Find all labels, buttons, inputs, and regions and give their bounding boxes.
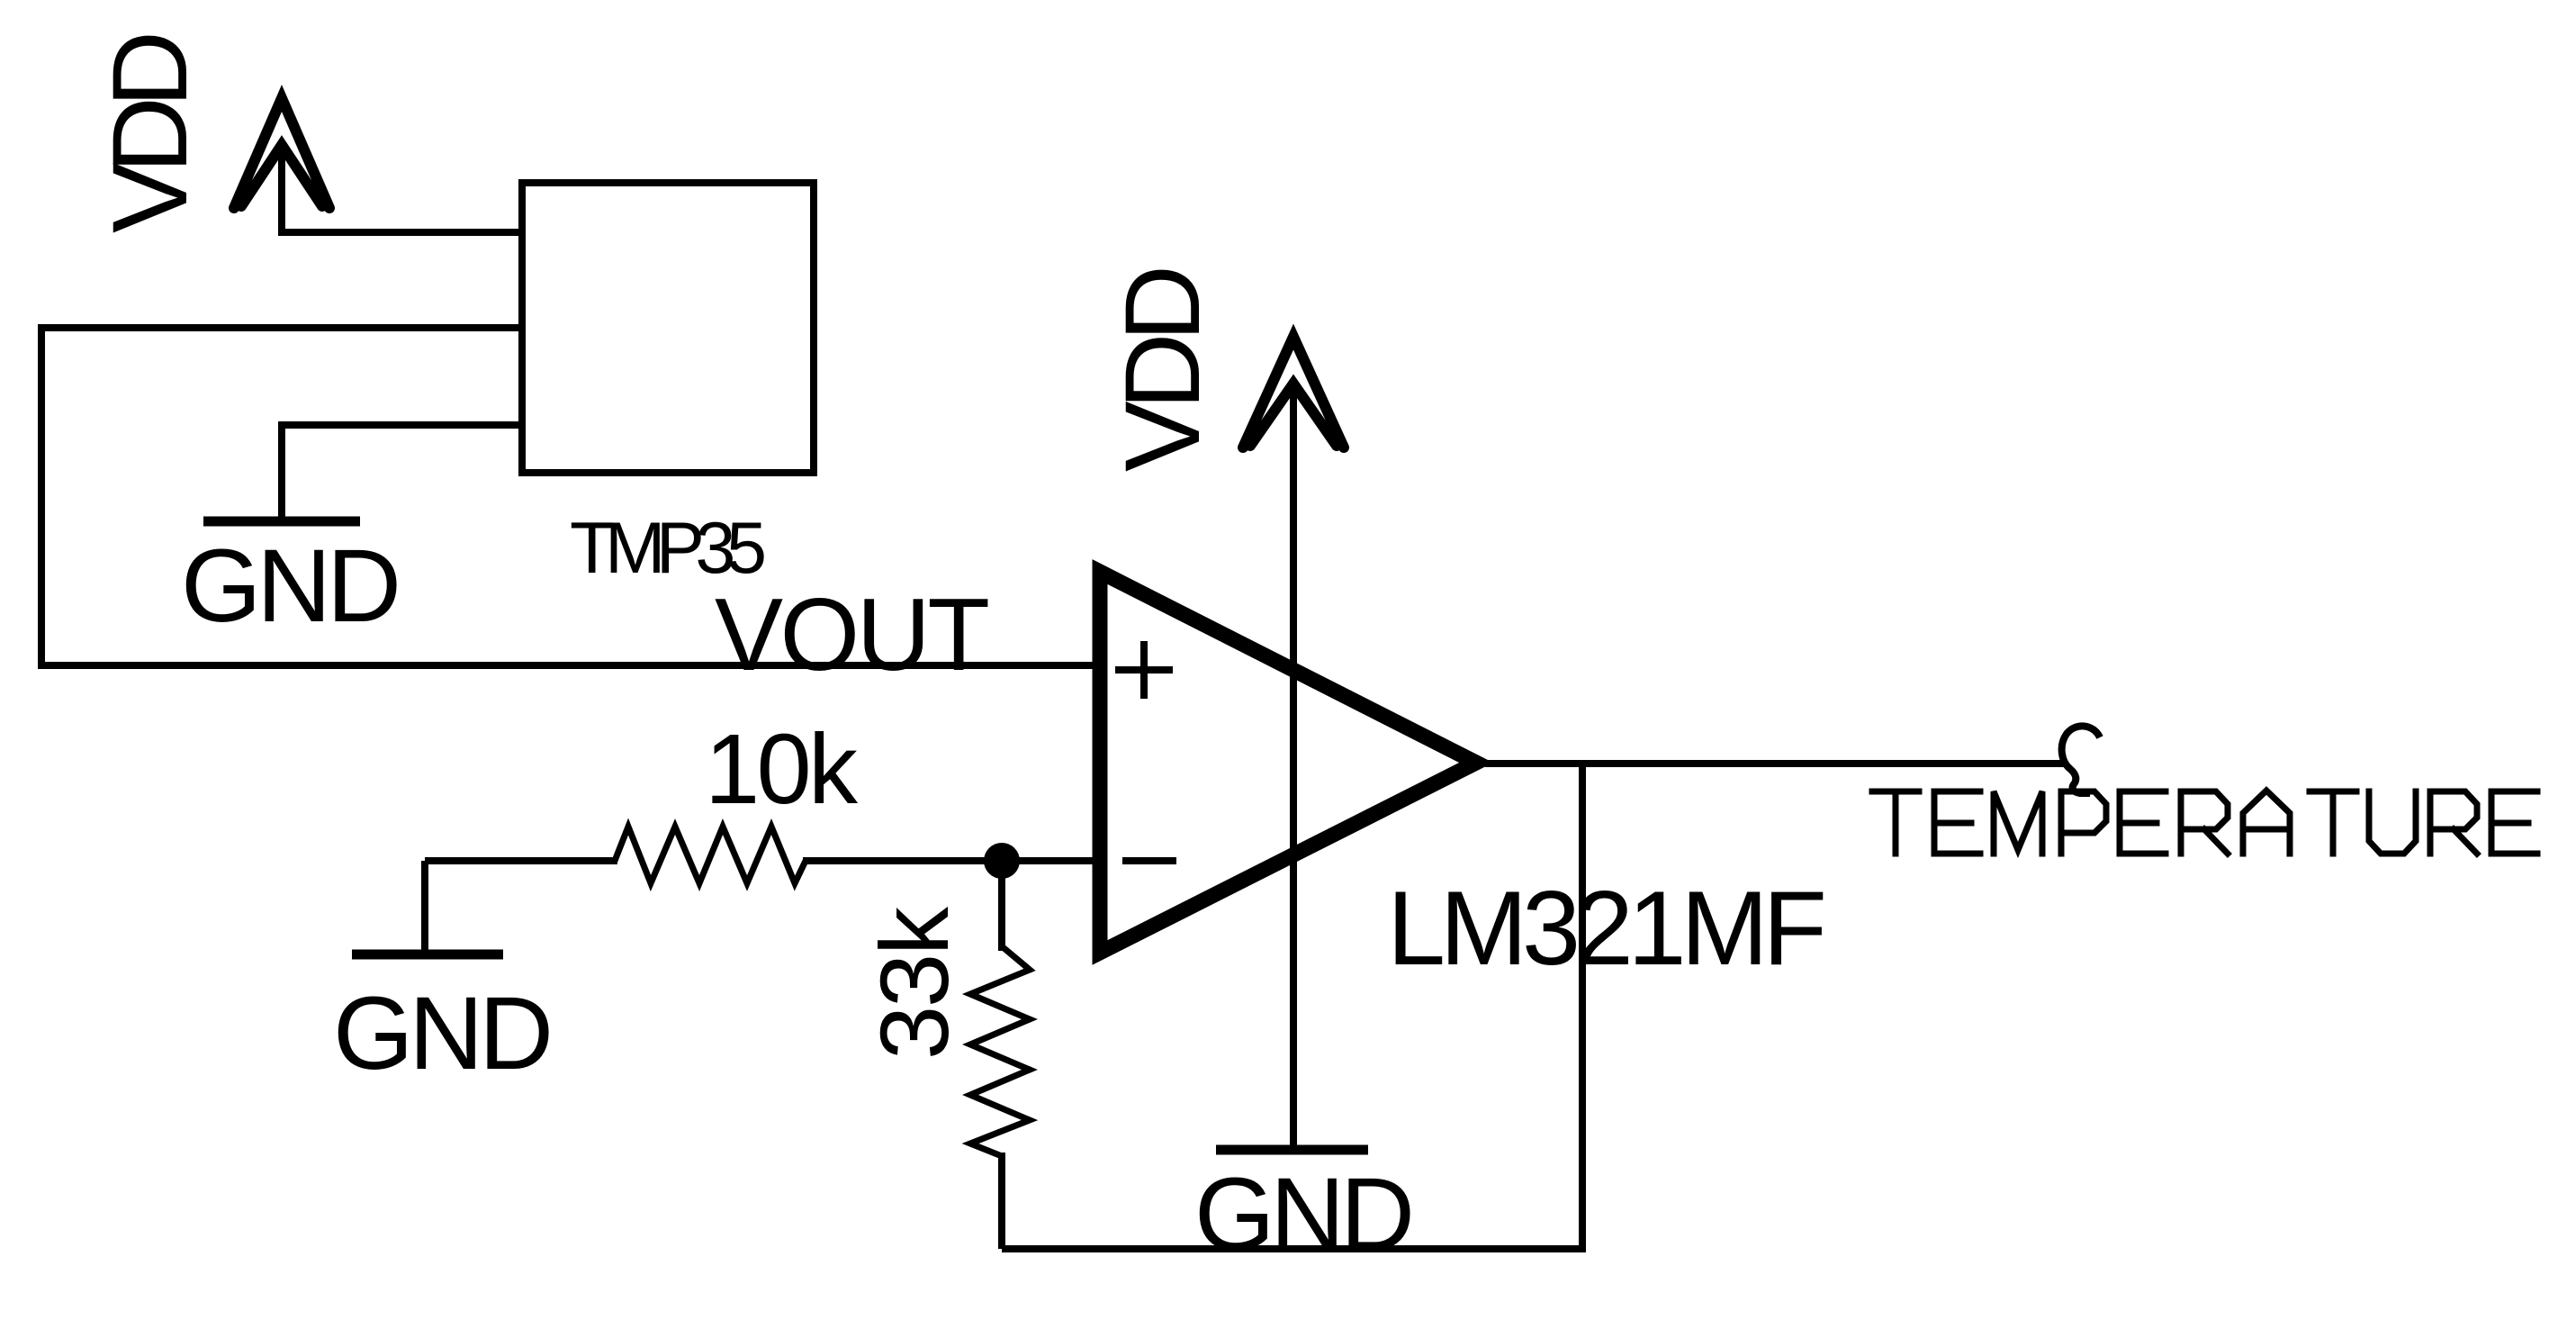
power flag VDD (op-amp supply) arrow symbol [1243,337,1344,448]
svg-text:GND: GND [1194,1157,1415,1272]
node junction at inverting input [984,843,1020,879]
resistor R2 33k (feedback) [970,946,1030,1156]
letter E [2491,791,2537,854]
net label connector curl [2062,726,2100,793]
ground symbol GND (TMP35) [203,517,360,527]
op-amp U2 triangle [1100,572,1476,953]
letter A [2243,791,2290,854]
net label TEMPERATURE (stroke letters) [1872,791,2537,854]
letter R [2430,791,2477,854]
sensor U1 TMP35 body [522,183,814,473]
svg-text:GND: GND [181,529,401,644]
wire 10k right lead to inverting input [803,857,1098,864]
svg-text:33k: 33k [860,906,968,1060]
wire 33k bottom lead [998,1153,1005,1249]
svg-text:TMP35: TMP35 [570,508,767,589]
letter E [2120,791,2166,854]
svg-text:VDD: VDD [91,31,210,233]
svg-text:VOUT: VOUT [715,578,990,692]
power flag VDD (TMP35 supply) label [91,31,210,233]
svg-text:LM321MF: LM321MF [1387,869,1827,987]
ground symbol GND (10k reference) [333,861,554,1091]
ground symbol GND (op-amp) [1216,1145,1368,1155]
wire op-amp output (net TEMPERATURE) [1485,760,2066,767]
wire junction to 33k top [998,861,1005,951]
letter T [2310,791,2356,854]
power flag VDD (TMP35 supply) arrow symbol [234,98,329,208]
letter E [1934,791,1980,854]
letter U [2369,791,2416,854]
wire 10k left lead [425,857,617,864]
letter R [2181,791,2228,854]
op-amp plus input marking [1115,641,1173,699]
wire op-amp V+ pin down to ground (vertical supply stem) [1290,387,1297,1147]
letter M [1994,791,2042,854]
wire feedback bottom from 33k to output [1002,764,1582,1249]
wire TMP35 VOUT pin to op-amp non-inverting input (net VOUT) [41,328,1098,665]
wire TMP35 GND pin to ground [282,425,522,519]
wire VDD stem to TMP35 pin VDD [282,147,522,232]
svg-text:GND: GND [333,976,554,1091]
svg-text:VDD: VDD [1103,265,1222,472]
op-amp minus input marking [1122,857,1176,864]
svg-text:10k: 10k [705,714,859,825]
letter P [2061,791,2106,854]
resistor R1 10k [615,827,806,883]
letter T [1872,791,1919,854]
